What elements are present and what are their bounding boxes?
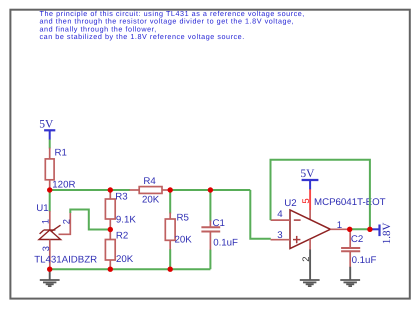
R2 pin 2 [109, 260, 111, 269]
U1 diode triangle [39, 230, 61, 240]
junction node R3 top [108, 187, 113, 192]
svg-text:5: 5 [301, 198, 312, 203]
power stub 1.8V [370, 228, 380, 230]
C1 pin 1 [209, 221, 211, 228]
R5 body [165, 219, 175, 240]
U1 cathode bar hook [40, 230, 44, 234]
junction node R4 right / R5 top [168, 187, 173, 192]
junction node R1/U1/rail [47, 187, 52, 192]
junction node U1 anode / ground [47, 267, 52, 272]
ground stub (U1) [49, 269, 51, 280]
ground bars (C2) [340, 279, 360, 281]
wire rail down to op-amp pin3 [250, 190, 270, 239]
C1 top plate [201, 226, 220, 228]
wire U1 ref to divider [70, 210, 110, 230]
junction node R3/R2 divider [108, 227, 113, 232]
svg-text:3: 3 [277, 230, 282, 241]
U2 pin 4 line [271, 219, 290, 221]
wire C2 to ground [349, 267, 351, 280]
R5 pin 2 [169, 240, 171, 250]
R4 pin 1 [130, 189, 140, 191]
power stub 5V [49, 130, 51, 139]
svg-text:20K: 20K [142, 195, 160, 206]
svg-text:4: 4 [277, 209, 283, 220]
capacitor C1 [201, 190, 238, 269]
svg-text:1: 1 [337, 220, 342, 231]
U2 pin 2 line [309, 239, 311, 250]
svg-text:1: 1 [41, 219, 51, 224]
C1 bottom plate [201, 231, 220, 233]
svg-text:20K: 20K [116, 254, 134, 265]
svg-text:20K: 20K [175, 235, 193, 246]
ground (U1) [40, 269, 60, 286]
svg-text:R1: R1 [55, 148, 67, 159]
svg-text:R5: R5 [177, 213, 189, 224]
R3 pin 1 [109, 190, 111, 200]
R1 body [45, 159, 54, 180]
svg-text:5V: 5V [39, 118, 54, 130]
R3 body [105, 199, 115, 219]
svg-text:MCP6041T-EOT: MCP6041T-EOT [314, 197, 386, 208]
wire 5V to R1 [49, 140, 51, 149]
svg-text:120R: 120R [52, 180, 75, 191]
junction node C1 top [208, 187, 213, 192]
svg-text:5V: 5V [300, 168, 315, 180]
C1 pin 2 [209, 232, 211, 251]
svg-text:TL431AIDBZR: TL431AIDBZR [34, 254, 97, 265]
svg-text:U1: U1 [36, 203, 48, 214]
svg-text:C2: C2 [351, 234, 363, 245]
svg-text:1.8V: 1.8V [381, 222, 393, 244]
U1 cathode bar [44, 229, 56, 231]
capacitor C2 [341, 229, 376, 267]
svg-text:9.1K: 9.1K [116, 215, 136, 226]
wire node to C1 [209, 190, 211, 222]
svg-text:R4: R4 [143, 176, 156, 187]
resistor R2 [105, 230, 133, 270]
wire node to U1 cathode [49, 190, 51, 212]
R3 pin 2 [109, 219, 111, 230]
ground (op-amp) [300, 280, 320, 286]
U2 inverting input minus sign [294, 219, 301, 221]
U2 pin 1 output line [330, 228, 349, 230]
junction node feedback / 1.8V port [367, 227, 372, 232]
R4 pin 2 [162, 189, 170, 191]
resistor R1 [45, 148, 67, 191]
svg-text:R2: R2 [116, 231, 128, 242]
power stub 5V (op-amp) [309, 180, 311, 190]
U1 reference diagonal [52, 225, 61, 231]
wire 5V to op-amp pin5 (red) [309, 189, 311, 210]
wire R5 to bottom rail [169, 249, 171, 269]
R1 pin 1 [49, 148, 51, 159]
wire top rail left segment [50, 189, 130, 191]
U2 pin 3 line [271, 239, 290, 241]
title text annotation [40, 9, 305, 41]
R2 body [105, 240, 115, 261]
U1 pin 3 line [49, 240, 51, 270]
svg-text:C1: C1 [213, 218, 225, 229]
resistor R3 [105, 190, 136, 230]
junction node R5 bottom [168, 267, 173, 272]
C2 pin 2 [349, 251, 351, 267]
power bar 5V (op-amp) [302, 179, 319, 181]
resistor R5 [165, 190, 192, 269]
U2 triangle body [290, 210, 330, 249]
power port 5V (left) [39, 118, 55, 139]
wire op-amp pin2 to ground [309, 250, 311, 281]
svg-text:0.1uF: 0.1uF [352, 255, 377, 266]
wire op-amp output [350, 228, 370, 230]
wire node to R5 [169, 190, 171, 214]
transistor/shunt-reference U1 TL431 [36, 203, 71, 269]
svg-text:3: 3 [41, 246, 51, 251]
svg-text:U2: U2 [284, 198, 296, 209]
svg-text:0.1uF: 0.1uF [213, 237, 238, 248]
wire top rail right segment [170, 189, 250, 191]
power bar 1.8V [378, 225, 380, 237]
U2 pin 5 line [309, 210, 311, 220]
wire feedback loop [271, 160, 370, 230]
svg-text:R3: R3 [115, 192, 127, 203]
svg-text:2: 2 [61, 219, 71, 224]
junction node op-amp output / C2 [347, 227, 352, 232]
power bar 5V [44, 129, 55, 131]
U2 non-inverting input plus sign [293, 239, 300, 241]
ground bars (op-amp) [300, 279, 320, 281]
ground bars (U1) [40, 279, 60, 281]
wire C1 to bottom rail [209, 250, 211, 270]
resistor R4 [130, 176, 171, 205]
C2 pin 1 [349, 229, 351, 248]
R5 pin 1 [169, 213, 171, 220]
R2 pin 1 [109, 230, 111, 240]
U1 pin 2 line [59, 213, 71, 235]
power port 1.8V (output) [370, 222, 393, 244]
wire bottom rail [50, 268, 211, 270]
U1 pin 1 line [49, 211, 51, 230]
power port 5V (op-amp) [300, 168, 318, 189]
R4 body [139, 187, 162, 194]
C2 bottom plate [341, 250, 360, 252]
svg-text:can be stabilized by the 1.8V: can be stabilized by the 1.8V reference … [40, 32, 245, 41]
C2 top plate [341, 247, 360, 249]
ground (C2) [340, 280, 360, 286]
R1 pin 2 [49, 180, 51, 190]
op-amp U2 [271, 198, 350, 262]
junction node R2 bottom [108, 267, 113, 272]
